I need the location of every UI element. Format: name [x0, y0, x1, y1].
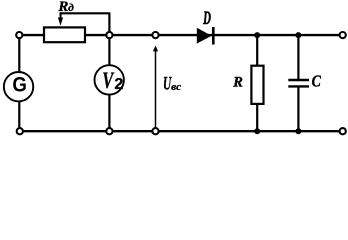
- wire bottom bus: [20, 130, 343, 132]
- wire slider tap horizontal: [61, 12, 111, 14]
- svg-text:R: R: [232, 75, 243, 91]
- wire top bus: [19, 34, 342, 36]
- wire node to V2: [108, 35, 110, 66]
- svg-text:G: G: [12, 73, 27, 96]
- rheostat slider arrow: [58, 12, 63, 25]
- generator G: [4, 72, 33, 101]
- rheostat Rd box: [44, 27, 85, 42]
- junction dot R bottom: [254, 128, 260, 134]
- wire G to bottom terminal: [18, 101, 20, 131]
- voltage arrow head: [153, 46, 158, 52]
- svg-text:C: C: [312, 71, 322, 90]
- svg-text:D: D: [203, 9, 211, 29]
- wire R bottom lead: [256, 105, 258, 132]
- wire V2 to bottom node: [108, 95, 110, 132]
- node U bottom: [152, 128, 158, 134]
- svg-text:д: д: [68, 2, 74, 14]
- voltmeter V2: [95, 65, 124, 94]
- wire C top lead: [297, 35, 299, 80]
- svg-text:2: 2: [114, 76, 123, 93]
- capacitor C bottom plate: [288, 85, 309, 87]
- voltage arrow U line: [155, 51, 157, 128]
- node terminal bottom-left: [17, 128, 23, 134]
- svg-text:V: V: [102, 68, 114, 93]
- wire C bottom lead: [297, 86, 299, 131]
- resistor R box: [251, 66, 263, 104]
- junction dot R top: [254, 32, 260, 38]
- node U top: [152, 32, 158, 38]
- node rheostat junction: [106, 32, 112, 38]
- wire left vertical to G: [18, 35, 20, 73]
- node V2 bottom: [106, 128, 112, 134]
- label U with subscript: [163, 74, 181, 95]
- junction dot C bottom: [295, 128, 301, 134]
- node terminal top-right: [340, 32, 346, 38]
- diode D triangle: [197, 28, 212, 44]
- junction dot C top: [295, 32, 301, 38]
- wire slider tap vertical: [108, 13, 110, 32]
- svg-text:R: R: [57, 0, 68, 15]
- svg-text:вс: вс: [171, 81, 181, 93]
- diode D cathode bar: [212, 27, 215, 45]
- node terminal top-left: [16, 32, 22, 38]
- capacitor C top plate: [288, 79, 309, 81]
- node terminal bottom-right: [340, 128, 346, 134]
- wire R top lead: [256, 35, 258, 66]
- label Rd: [57, 0, 74, 15]
